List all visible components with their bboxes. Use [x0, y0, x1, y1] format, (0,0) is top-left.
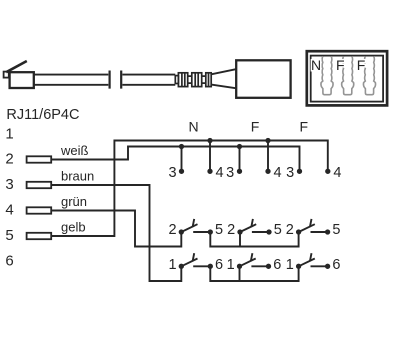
svg-text:N: N — [311, 57, 321, 73]
socket strip labels N F F — [311, 57, 365, 73]
svg-text:4: 4 — [333, 165, 341, 181]
svg-text:1: 1 — [168, 257, 176, 273]
pin 4 terminal box — [27, 207, 52, 213]
svg-text:4: 4 — [216, 165, 224, 181]
svg-text:1: 1 — [227, 257, 235, 273]
svg-text:5: 5 — [274, 222, 282, 238]
pin numbers — [5, 126, 13, 270]
svg-text:F: F — [357, 57, 366, 73]
screw terminal F (middle) — [342, 56, 354, 94]
wire gelb: pin5 to bus A — [52, 141, 328, 237]
junction dots on buses — [179, 138, 331, 269]
phase labels N F F — [188, 118, 308, 134]
cable break marks — [110, 71, 122, 89]
svg-text:6: 6 — [273, 257, 281, 273]
switch S6 row2 — [299, 253, 328, 266]
cable left segment — [34, 75, 108, 85]
switch contact dots row1 — [179, 229, 184, 234]
switch S4 row2 — [181, 253, 210, 266]
switch S5 row2 — [240, 253, 269, 266]
svg-text:3: 3 — [286, 165, 294, 181]
svg-text:2: 2 — [168, 222, 176, 238]
row1 link bus — [210, 232, 298, 247]
screw terminal F (right) — [363, 56, 375, 94]
switch row2 terminal labels — [168, 257, 340, 273]
switch S2 row1 — [240, 219, 269, 232]
svg-text:RJ11/6P4C: RJ11/6P4C — [6, 107, 79, 123]
socket strip inner frame — [311, 56, 383, 102]
svg-text:1: 1 — [286, 257, 294, 273]
pin 2 terminal box — [27, 156, 52, 162]
svg-text:3: 3 — [169, 165, 177, 181]
svg-text:braun: braun — [61, 168, 94, 183]
svg-text:5: 5 — [5, 227, 13, 244]
wire braun: pin3 to switch row 2 — [52, 185, 181, 281]
svg-text:2: 2 — [227, 222, 235, 238]
switch contact dots row2 — [179, 264, 184, 269]
svg-text:6: 6 — [332, 257, 340, 273]
pin 3 terminal box — [27, 182, 52, 188]
switch row1 terminal labels — [168, 222, 340, 238]
svg-text:1: 1 — [5, 126, 13, 143]
switch S3 row1 — [299, 219, 328, 232]
switch S1 row1 — [181, 219, 210, 232]
svg-text:4: 4 — [5, 202, 13, 219]
wire weiss: pin2 to bus B — [52, 147, 300, 172]
svg-text:3: 3 — [226, 165, 234, 181]
socket strip outer frame — [307, 51, 387, 105]
connector box — [236, 60, 290, 98]
wire colour labels — [60, 143, 94, 235]
drop contact 4 (socket 1) — [209, 141, 211, 172]
taper into connector — [211, 69, 236, 88]
svg-text:F: F — [300, 118, 309, 134]
pin 5 terminal box — [27, 233, 52, 239]
svg-text:3: 3 — [5, 176, 13, 193]
svg-text:N: N — [188, 118, 198, 134]
strain relief boot — [175, 73, 211, 87]
contact number labels on buses — [169, 165, 342, 181]
svg-text:F: F — [336, 57, 345, 73]
svg-text:2: 2 — [5, 151, 13, 168]
terminal dots under buses — [179, 169, 184, 174]
drop contact 4 (socket 2) — [267, 141, 269, 172]
drop contact 3 (socket 2) — [239, 147, 241, 172]
row2 link leg S5 — [239, 266, 241, 281]
svg-text:6: 6 — [215, 257, 223, 273]
svg-text:5: 5 — [332, 222, 340, 238]
svg-text:5: 5 — [215, 222, 223, 238]
RJ11 plug P1 — [4, 61, 34, 88]
svg-text:6: 6 — [5, 253, 13, 270]
drop contact 3 (socket 1) — [181, 147, 183, 172]
screw terminal N — [321, 56, 333, 94]
svg-text:F: F — [251, 118, 260, 134]
svg-text:2: 2 — [286, 222, 294, 238]
svg-text:weiß: weiß — [60, 143, 89, 158]
svg-text:grün: grün — [61, 194, 87, 209]
svg-text:gelb: gelb — [61, 219, 86, 234]
row2 link bus — [210, 266, 298, 281]
row1 link leg S2 — [239, 232, 241, 247]
svg-text:4: 4 — [274, 165, 282, 181]
wire gruen: pin4 to switch row 1 — [52, 211, 181, 247]
cable right segment — [122, 75, 175, 85]
